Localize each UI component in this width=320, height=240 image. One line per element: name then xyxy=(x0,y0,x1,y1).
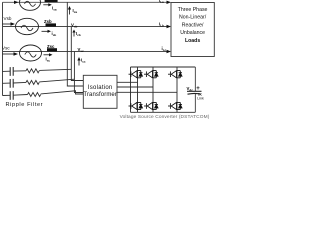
wire phase c xyxy=(3,51,170,53)
impedance Zsc xyxy=(47,44,57,52)
wire arrow into Vsa xyxy=(14,1,19,4)
wire phase b xyxy=(3,26,170,28)
svg-text:Isolation: Isolation xyxy=(88,85,113,91)
arrow I_Lb into load xyxy=(167,25,172,28)
arrow i_Ca xyxy=(68,6,77,15)
wire arrow into Vsb xyxy=(3,23,12,25)
svg-text:Voltage Source Converter (DSTA: Voltage Source Converter (DSTATCOM) xyxy=(120,114,210,120)
svg-text:Link: Link xyxy=(197,96,204,100)
wire arrow into Vsc xyxy=(3,53,15,55)
svg-text:+: + xyxy=(196,86,200,92)
wire transformer to leg 3 xyxy=(117,91,177,93)
arrow i_sb xyxy=(42,30,57,37)
arrow i_sa xyxy=(43,3,57,11)
wire dropline phase b to transformer xyxy=(71,27,83,81)
transistor S6 xyxy=(144,102,158,109)
VSC bridge frame xyxy=(131,67,196,112)
isolation transformer U1 xyxy=(83,75,117,108)
svg-text:Zsb: Zsb xyxy=(44,19,52,24)
transistor S2 xyxy=(168,102,182,109)
source Vsb xyxy=(16,18,39,34)
source Vsa xyxy=(20,0,41,10)
svg-text:Zsc: Zsc xyxy=(47,44,55,49)
wire transformer to leg 1 xyxy=(117,81,138,83)
arrow I_Lc into load xyxy=(167,50,172,53)
ripple filter branch a xyxy=(3,67,72,76)
VSC legs xyxy=(138,67,178,112)
svg-text:Vsb: Vsb xyxy=(4,16,12,21)
svg-text:Ripple Filter: Ripple Filter xyxy=(6,102,44,108)
svg-text:iLa: iLa xyxy=(159,0,164,4)
svg-text:Unbalance: Unbalance xyxy=(180,30,205,36)
DC link capacitor xyxy=(187,67,202,112)
svg-text:Reactive/: Reactive/ xyxy=(182,22,204,28)
arrow i_Cc xyxy=(77,57,85,66)
arrow i_sc xyxy=(44,53,53,62)
svg-text:Vsc: Vsc xyxy=(2,46,10,51)
ripple filter branch b xyxy=(3,79,75,88)
arrow i_Cb xyxy=(72,30,80,38)
svg-text:Three Phase: Three Phase xyxy=(178,7,208,13)
ripple filter branch c xyxy=(3,91,84,100)
wire transformer to leg 2 xyxy=(117,86,153,88)
wire phase a xyxy=(3,1,170,3)
impedance Zsb xyxy=(44,19,56,27)
wire left bus xyxy=(2,2,4,95)
svg-text:Transformer: Transformer xyxy=(83,92,117,98)
transistor S3 xyxy=(144,71,158,78)
transistor S1 xyxy=(129,71,143,78)
svg-text:Loads: Loads xyxy=(185,38,200,44)
transistor S4 xyxy=(129,102,143,109)
arrow I_La into load xyxy=(167,1,172,4)
wire dropline phase a to transformer xyxy=(67,2,83,86)
svg-text:Non-Linear/: Non-Linear/ xyxy=(179,15,207,21)
source Vsc xyxy=(20,45,42,61)
impedance Zsa xyxy=(45,0,58,2)
transistor S5 xyxy=(168,71,182,78)
load box xyxy=(171,3,214,57)
wire dropline phase c to transformer xyxy=(74,52,83,93)
